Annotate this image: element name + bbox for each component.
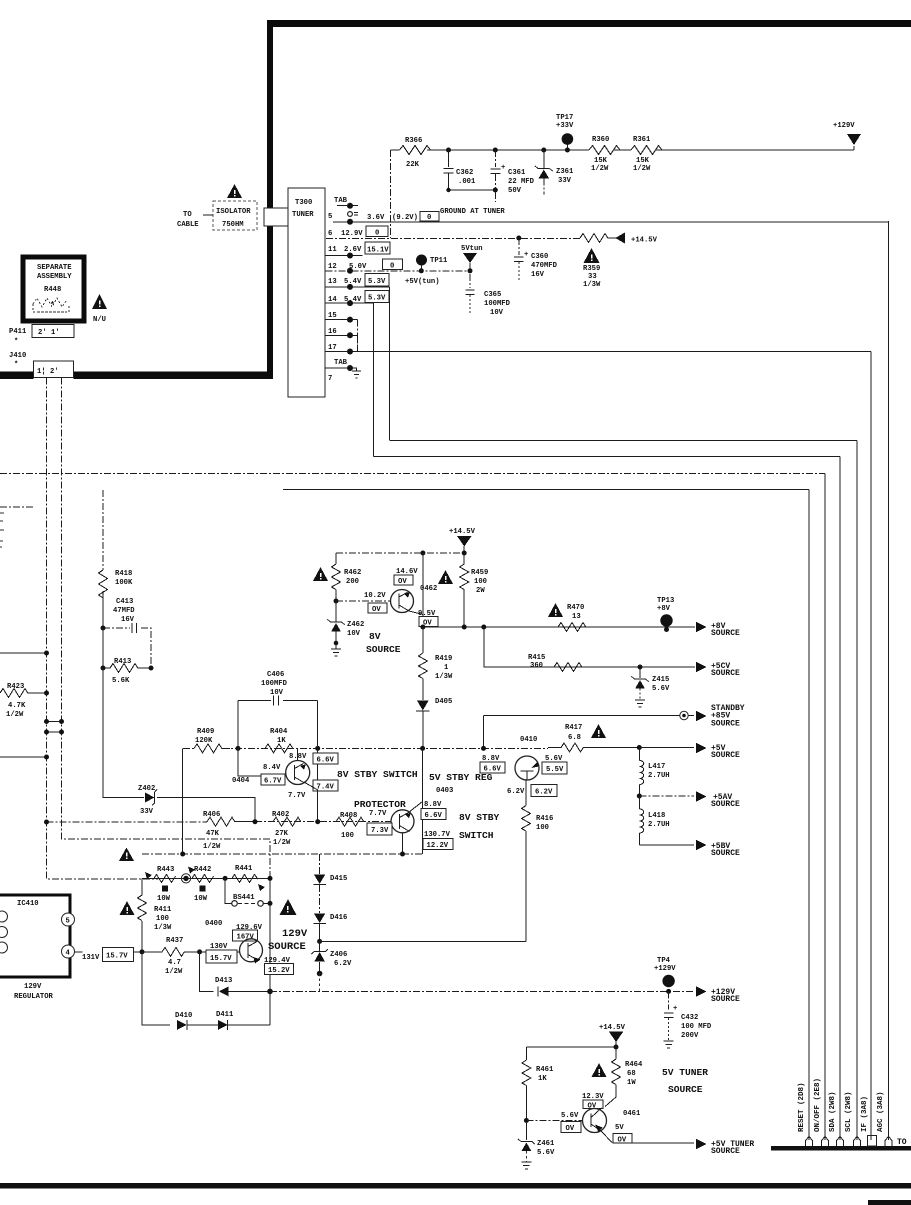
svg-text:R459: R459 (471, 569, 488, 577)
resistor R462 (335, 553, 337, 564)
svg-text:R419: R419 (435, 655, 452, 663)
zener Z415 (638, 665, 643, 670)
svg-text:15K: 15K (594, 157, 608, 165)
svg-text:5: 5 (66, 918, 70, 926)
svg-text:0404: 0404 (232, 777, 250, 785)
callout box 6.2V q410 (531, 785, 557, 797)
wire 5V tuner out (613, 1142, 694, 1144)
separate assembly box (23, 257, 84, 321)
svg-text:R423: R423 (7, 683, 24, 691)
callout box 15.7V ic410 (103, 948, 134, 962)
svg-text:7.3V: 7.3V (371, 827, 389, 835)
warning R411 (120, 901, 135, 915)
connector bullet IF (868, 1136, 877, 1147)
wire +5AV row (637, 794, 642, 799)
callout box OV q462 base (368, 603, 387, 613)
svg-text:13: 13 (572, 613, 581, 621)
wire row D (283, 489, 809, 491)
svg-text:SOURCE: SOURCE (711, 849, 740, 858)
svg-text:R411: R411 (154, 906, 172, 914)
test point TP11 (416, 255, 427, 266)
svg-text:33V: 33V (558, 177, 572, 185)
resistor R470 (558, 623, 586, 632)
svg-text:IF (3A8): IF (3A8) (861, 1096, 869, 1132)
connector bullet ON/OFF (822, 1137, 829, 1147)
svg-text:3.6V: 3.6V (367, 214, 385, 222)
output arrow +5AV SOURCE (696, 791, 707, 801)
svg-text:16V: 16V (531, 271, 545, 279)
svg-text:SOURCE: SOURCE (711, 1147, 740, 1156)
svg-text:200: 200 (346, 578, 359, 586)
svg-text:12.9V: 12.9V (341, 230, 363, 238)
svg-text:5.6V: 5.6V (652, 685, 670, 693)
svg-text:1/3W: 1/3W (583, 281, 601, 289)
svg-text:1/2W: 1/2W (203, 843, 221, 851)
zener Z361 (541, 148, 546, 153)
wire Q461 base row (524, 1118, 529, 1123)
svg-text:TAB: TAB (334, 359, 348, 367)
wire 129V vertical (269, 877, 271, 991)
svg-text:131V: 131V (82, 954, 100, 962)
svg-text:ASSEMBLY: ASSEMBLY (37, 273, 72, 281)
svg-text:2W: 2W (476, 587, 485, 595)
svg-text:2.7UH: 2.7UH (648, 772, 670, 780)
svg-text:R360: R360 (592, 136, 609, 144)
callout box 5.3V pin13 (365, 274, 389, 287)
zener Z406 (319, 941, 321, 951)
wire isolator to cable (203, 214, 213, 216)
wire +5BV row (639, 844, 694, 846)
svg-text:D413: D413 (215, 977, 232, 985)
resistor R359 (580, 234, 615, 243)
resistor R459 (463, 553, 465, 564)
output arrow +129V SOURCE (696, 986, 707, 996)
wire 5V tuner header (526, 1046, 616, 1048)
svg-text:47K: 47K (206, 830, 220, 838)
ground Z462 (334, 641, 339, 646)
wire Q403 emitter riser (409, 802, 423, 813)
svg-text:8V STBY: 8V STBY (459, 812, 500, 823)
wire R409 drop (182, 748, 184, 854)
wire C406 right leg (317, 701, 319, 749)
svg-text:TP13: TP13 (657, 597, 674, 605)
svg-text:1/2W: 1/2W (591, 165, 609, 173)
callout box 7.3V q403 (367, 823, 392, 835)
wire Q462 emitter to 8V rail (422, 553, 424, 627)
wire R462 to base node (335, 590, 337, 602)
svg-text:10V: 10V (270, 689, 284, 697)
svg-text:+14.5V: +14.5V (599, 1024, 626, 1032)
svg-text:SOURCE: SOURCE (711, 995, 740, 1004)
svg-text:100: 100 (536, 824, 549, 832)
callout box 15.2V (265, 964, 294, 975)
pin 5 circle (62, 913, 75, 926)
svg-text:15: 15 (328, 312, 337, 320)
svg-text:1/2W: 1/2W (633, 165, 651, 173)
svg-text:5.6V: 5.6V (537, 1149, 555, 1157)
wire to Q400 base (200, 951, 240, 953)
connector bullet RESET (806, 1137, 813, 1147)
svg-text:6.6V: 6.6V (484, 766, 502, 774)
capacitor C365 (469, 274, 471, 288)
svg-text:C360: C360 (531, 253, 548, 261)
svg-text:D405: D405 (435, 698, 452, 706)
bus vertical SCL (856, 441, 858, 1141)
svg-text:1/3W: 1/3W (154, 924, 172, 932)
transistor Q410 (515, 756, 539, 780)
svg-text:N/U: N/U (93, 316, 106, 324)
svg-text:R409: R409 (197, 728, 214, 736)
bus vertical AGC (888, 221, 890, 1140)
wire Q404 collector (297, 749, 299, 761)
wire pin4 to R437 (75, 951, 143, 953)
supply arrow +14.5V left (615, 233, 625, 244)
svg-text:10V: 10V (347, 630, 361, 638)
wire row A pin13 (390, 440, 857, 442)
callout box 12.2V (423, 839, 453, 850)
connector P411 (32, 325, 74, 338)
wire 14.5 header row (336, 552, 464, 554)
svg-text:D410: D410 (175, 1012, 192, 1020)
svg-text:0410: 0410 (520, 736, 537, 744)
svg-text:1¦ 2': 1¦ 2' (37, 368, 59, 376)
svg-text:SCL (2W8): SCL (2W8) (845, 1091, 853, 1132)
jumper y721 (47, 721, 62, 723)
svg-text:C365: C365 (484, 291, 501, 299)
svg-text:1: 1 (444, 664, 449, 672)
wire pin16 stub (357, 335, 359, 351)
zener Z462 (335, 601, 337, 622)
connector bullet SCL (854, 1137, 861, 1147)
svg-text:100 MFD: 100 MFD (681, 1023, 712, 1031)
wire pin13 to row A (388, 287, 390, 441)
svg-text:1K: 1K (277, 737, 286, 745)
svg-text:7: 7 (328, 375, 332, 383)
junction circled (181, 874, 190, 883)
bus vertical ON/OFF (824, 474, 826, 1141)
output arrow +5CV SOURCE (696, 662, 707, 672)
capacitor C362 (448, 150, 450, 167)
svg-text:SOURCE: SOURCE (668, 1084, 703, 1095)
svg-text:6.6V: 6.6V (317, 757, 335, 765)
svg-text:SOURCE: SOURCE (711, 800, 740, 809)
callout box OV q462 top (394, 575, 413, 585)
svg-text:R464: R464 (625, 1061, 643, 1069)
callout box OV q461 base (561, 1122, 581, 1133)
svg-text:8V: 8V (369, 631, 381, 642)
svg-text:4.7K: 4.7K (8, 702, 26, 710)
svg-text:GROUND AT TUNER: GROUND AT TUNER (440, 208, 505, 216)
svg-text:33: 33 (588, 273, 597, 281)
wire C362 bottom rail (449, 189, 496, 191)
wire standby row (484, 715, 695, 717)
capacitor C361 (493, 148, 498, 153)
svg-text:OV: OV (398, 578, 407, 586)
transistor Q462 (391, 590, 414, 613)
svg-text:Z402: Z402 (138, 785, 155, 793)
resistor R415 (554, 663, 582, 672)
svg-text:R441: R441 (235, 865, 253, 873)
svg-text:*: * (14, 338, 18, 346)
wire pin14 to row B (372, 303, 374, 456)
diode D405 (417, 701, 429, 711)
wire ground-at-tuner row (333, 221, 889, 223)
svg-text:120K: 120K (195, 737, 213, 745)
resistor R411 (141, 878, 143, 895)
callout box 7.4V q404 (313, 780, 338, 791)
svg-text:22K: 22K (406, 161, 420, 169)
wire standby drop to 748 row (483, 716, 485, 749)
wire R402 node riser (317, 748, 319, 821)
svg-text:R442: R442 (194, 866, 211, 874)
svg-text:5.4V: 5.4V (344, 278, 362, 286)
svg-text:5.3V: 5.3V (368, 295, 386, 303)
svg-text:6.2V: 6.2V (334, 960, 352, 968)
svg-text:68: 68 (627, 1070, 636, 1078)
svg-text:8V STBY SWITCH: 8V STBY SWITCH (337, 769, 418, 780)
svg-text:22 MFD: 22 MFD (508, 178, 535, 186)
svg-text:ISOLATOR: ISOLATOR (216, 208, 251, 216)
svg-text:7.7V: 7.7V (288, 792, 306, 800)
capacitor C432 (668, 991, 670, 1009)
svg-text:REGULATOR: REGULATOR (14, 993, 54, 1001)
wire R443 row (142, 877, 271, 879)
callout box OV q461 out (613, 1134, 632, 1144)
svg-text:5V STBY REG: 5V STBY REG (429, 772, 493, 783)
wire +14.5V row / pin 6 row (326, 237, 580, 239)
callout box OV q461 top (583, 1100, 603, 1109)
diode D415 (319, 854, 321, 874)
svg-text:6.7V: 6.7V (264, 778, 282, 786)
svg-text:Z415: Z415 (652, 676, 669, 684)
T300 tuner box (288, 188, 325, 397)
svg-text:11: 11 (328, 246, 337, 254)
svg-text:750HM: 750HM (222, 221, 244, 229)
svg-text:T300: T300 (295, 199, 312, 207)
ground pin TAB (352, 368, 361, 378)
svg-text:100: 100 (156, 915, 169, 923)
wire riser to R366 (390, 150, 392, 238)
bottom bus bar (771, 1146, 911, 1151)
svg-text:4: 4 (66, 950, 71, 958)
svg-text:ON/OFF (2E8): ON/OFF (2E8) (814, 1078, 822, 1132)
svg-text:+14.5V: +14.5V (631, 237, 658, 245)
svg-text:(9.2V): (9.2V) (392, 214, 418, 222)
svg-text:J410: J410 (9, 352, 26, 360)
warning R417 (591, 724, 606, 738)
wire Z406 to 129 row (319, 974, 321, 992)
wire Q404 base loop (238, 748, 286, 776)
svg-text:Z462: Z462 (347, 621, 364, 629)
callout box 167V (233, 930, 258, 941)
svg-text:2.7UH: 2.7UH (648, 821, 670, 829)
svg-text:0: 0 (427, 214, 431, 222)
svg-text:0400: 0400 (205, 920, 222, 928)
inductor L418 (638, 796, 640, 809)
wire stby base row (255, 821, 391, 823)
diode mark left (145, 872, 152, 879)
wire Q404 emitter to R402 node (304, 782, 318, 822)
shield border left vertical lower (267, 226, 273, 379)
svg-text:129V: 129V (282, 928, 308, 940)
svg-text:8.4V: 8.4V (263, 764, 281, 772)
svg-text:TAB: TAB (334, 197, 348, 205)
svg-text:7.4V: 7.4V (317, 784, 335, 792)
isolator box (213, 201, 257, 230)
svg-text:10V: 10V (490, 309, 504, 317)
svg-text:6.2V: 6.2V (507, 788, 525, 796)
IC410 box (0, 895, 70, 977)
svg-text:SOURCE: SOURCE (711, 751, 740, 760)
svg-text:10.2V: 10.2V (364, 592, 386, 600)
warning R464 (592, 1063, 607, 1077)
connector bullet SDA (837, 1137, 844, 1147)
svg-text:8.8V: 8.8V (424, 801, 442, 809)
wire pin12 5Vtun row (326, 270, 471, 272)
svg-text:+33V: +33V (556, 122, 574, 130)
wire 8V rail (423, 626, 695, 628)
svg-text:CABLE: CABLE (177, 221, 199, 229)
wire row 854 collector rail (142, 853, 423, 855)
svg-text:0461: 0461 (623, 1110, 641, 1118)
bus vertical SDA (839, 457, 841, 1141)
svg-text:6.2V: 6.2V (535, 789, 553, 797)
wire +5V row (637, 745, 642, 750)
svg-text:SOURCE: SOURCE (366, 644, 401, 655)
via symbol standby (680, 711, 688, 719)
warning R462 (313, 567, 328, 581)
capacitor C360 (516, 236, 521, 241)
svg-text:15.1V: 15.1V (367, 247, 389, 255)
svg-text:*: * (50, 301, 55, 310)
svg-text:SOURCE: SOURCE (268, 941, 306, 953)
svg-text:1W: 1W (627, 1079, 636, 1087)
svg-text:15.2V: 15.2V (268, 967, 290, 975)
output arrow +8V SOURCE (696, 622, 707, 632)
svg-text:AGC (3A8): AGC (3A8) (877, 1091, 885, 1132)
svg-text:R359: R359 (583, 265, 600, 273)
svg-text:R470: R470 (567, 604, 584, 612)
svg-text:SOURCE: SOURCE (711, 629, 740, 638)
svg-text:10W: 10W (157, 895, 171, 903)
callout box 6.6V q404 (313, 753, 338, 764)
capacitor C413 (101, 626, 106, 631)
svg-text:PROTECTOR: PROTECTOR (354, 799, 406, 810)
svg-text:+: + (524, 251, 528, 259)
svg-text:C432: C432 (681, 1014, 698, 1022)
callout box 6.6V q410 (480, 762, 505, 773)
svg-text:12.2V: 12.2V (427, 842, 449, 850)
svg-text:7.7V: 7.7V (369, 810, 387, 818)
transistor Q403 (391, 810, 414, 833)
jumper y732 (47, 731, 62, 733)
connector through shield (264, 208, 288, 226)
output arrow +5V SOURCE (696, 743, 707, 753)
svg-text:50V: 50V (508, 187, 522, 195)
wire R416 return row (317, 939, 322, 944)
svg-text:5.6K: 5.6K (112, 677, 130, 685)
shield border top (267, 20, 911, 27)
svg-text:TP17: TP17 (556, 114, 573, 122)
svg-text:2' 1': 2' 1' (38, 329, 60, 337)
svg-text:D411: D411 (216, 1011, 234, 1019)
svg-text:*: * (14, 361, 18, 369)
svg-text:R448: R448 (44, 286, 61, 294)
output arrow +5V TUNER SOURCE (696, 1139, 707, 1149)
wire D410 D411 return (142, 952, 170, 1025)
wire stub row x0 y757 (0, 756, 47, 758)
svg-text:100: 100 (341, 832, 354, 840)
warning 129V (280, 899, 297, 915)
svg-text:C361: C361 (508, 169, 526, 177)
svg-text:1/3W: 1/3W (435, 673, 453, 681)
svg-text:100: 100 (474, 578, 487, 586)
svg-text:C413: C413 (116, 598, 133, 606)
svg-text:5.6V: 5.6V (561, 1112, 579, 1120)
resistor R413 (102, 628, 104, 668)
svg-text:R406: R406 (203, 811, 220, 819)
svg-text:R437: R437 (166, 937, 183, 945)
resistor R461 (525, 1047, 527, 1060)
wire row C long (0, 473, 825, 475)
svg-text:15K: 15K (636, 157, 650, 165)
shield border left vertical (267, 20, 273, 208)
svg-text:TUNER: TUNER (292, 211, 314, 219)
svg-text:1/2W: 1/2W (6, 711, 24, 719)
node C362 top (446, 148, 451, 153)
svg-text:6.8: 6.8 (568, 734, 581, 742)
wire J410 vertical 1 (47, 378, 159, 880)
svg-text:5.5V: 5.5V (546, 766, 564, 774)
svg-text:R418: R418 (115, 570, 132, 578)
bus vertical IF (870, 352, 872, 1141)
wire Z402 to R406 row (157, 798, 255, 822)
svg-text:+8V: +8V (657, 605, 671, 613)
svg-text:0: 0 (390, 263, 394, 271)
svg-text:OV: OV (372, 606, 381, 614)
wire main row 748 (222, 747, 548, 749)
bottom page rule (0, 1183, 911, 1189)
svg-text:+5V(tun): +5V(tun) (405, 278, 440, 286)
svg-text:R361: R361 (633, 136, 651, 144)
svg-text:TP11: TP11 (430, 257, 448, 265)
svg-text:200V: 200V (681, 1032, 699, 1040)
warning N/U (92, 294, 107, 309)
wire J410 vertical 2 (62, 378, 271, 878)
warning left row (119, 848, 134, 862)
bus vertical RESET (808, 490, 810, 1141)
svg-text:12: 12 (328, 263, 337, 271)
svg-text:1/2W: 1/2W (273, 839, 291, 847)
svg-text:Z361: Z361 (556, 168, 574, 176)
callout box OV 8v rail (419, 617, 438, 627)
transistor Q404 (286, 761, 310, 785)
svg-text:47MFD: 47MFD (113, 607, 135, 615)
svg-text:4.7: 4.7 (168, 959, 181, 967)
svg-text:10W: 10W (194, 895, 208, 903)
svg-text:130.7V: 130.7V (424, 831, 451, 839)
svg-text:+: + (501, 164, 505, 172)
svg-text:15.7V: 15.7V (106, 953, 128, 961)
svg-text:5Vtun: 5Vtun (461, 245, 483, 253)
svg-text:TP4: TP4 (657, 957, 671, 965)
callout box 15.1V pin11 (365, 242, 390, 254)
output arrow +5BV SOURCE (696, 840, 707, 850)
wire C406 left leg (237, 701, 239, 749)
svg-text:5V: 5V (615, 1124, 624, 1132)
warning R459 (438, 570, 453, 584)
svg-text:R366: R366 (405, 137, 422, 145)
